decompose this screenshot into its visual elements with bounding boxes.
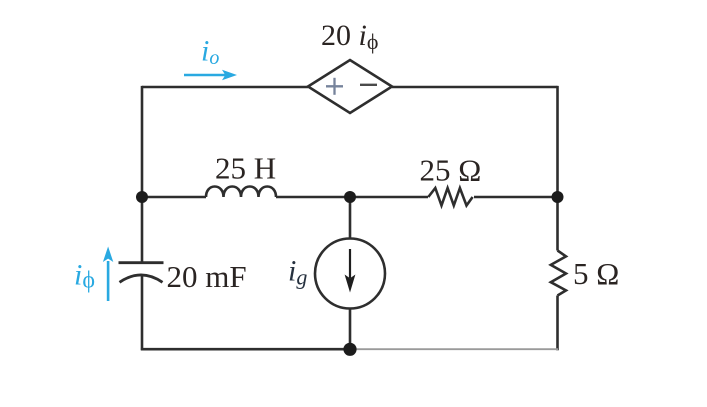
wire center vertical (node to current source) [349,197,352,239]
wire right vertical lower (resistor to bottom corner) [556,296,559,351]
svg-text:25 H: 25 H [215,151,276,186]
capacitor C1 (20 mF) top plate [119,261,164,264]
current source arrow (down) [345,249,356,293]
wire middle (center node to resistor) [350,196,428,199]
wire middle-left (node to inductor) [142,196,206,199]
resistor R2 (5 ohm, vertical) [551,251,566,296]
wire bottom black segment [141,348,352,351]
current source I1 (i_g) circle [315,239,385,309]
dependent source U1 (diamond 20 i_phi) [308,60,392,113]
node C (right middle) [552,191,564,203]
wire middle-right (resistor to right node) [474,196,558,199]
resistor R1 (25 ohm, horizontal) [428,188,472,206]
wire top-left segment [142,86,308,89]
svg-text:20 mF: 20 mF [167,259,247,294]
wire left vertical lower (capacitor to bottom corner) [141,275,144,350]
inductor L1 (25 H) [206,187,276,198]
current arrow i_o (blue, right) [184,70,237,80]
minus sign inside diamond [360,84,377,86]
svg-text:5 Ω: 5 Ω [573,256,619,291]
svg-text:25 Ω: 25 Ω [420,153,482,188]
capacitor C1 curved plate [120,275,163,282]
wire top-right segment [392,86,558,89]
wire bottom gray segment [352,348,558,350]
node A (left middle) [136,191,148,203]
wire left vertical upper (top corner to capacitor) [141,86,144,263]
plus sign inside diamond [326,78,343,95]
current arrow i_phi (blue, up) [103,247,113,302]
wire center vertical (current source to bottom node) [349,309,352,350]
wire middle-center (inductor to center node) [276,196,350,199]
node B (center middle) [344,191,356,203]
node D (bottom center) [343,343,356,356]
wire right vertical upper (top corner to node) [556,86,559,251]
